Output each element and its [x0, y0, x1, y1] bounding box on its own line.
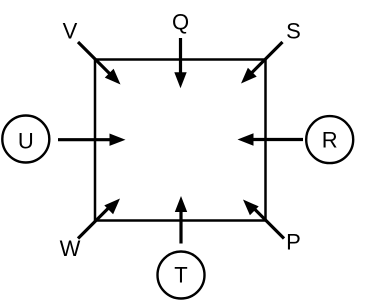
svg-text:R: R [322, 128, 338, 153]
svg-text:W: W [60, 236, 81, 261]
svg-text:Q: Q [172, 10, 189, 35]
svg-text:T: T [174, 263, 187, 288]
svg-text:S: S [286, 19, 301, 44]
svg-text:U: U [18, 129, 34, 154]
svg-text:P: P [286, 230, 301, 255]
svg-text:V: V [63, 19, 78, 44]
